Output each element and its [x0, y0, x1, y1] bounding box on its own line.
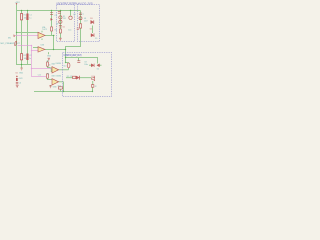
wire bottom bus [34, 91, 93, 93]
box A right circle component [69, 14, 76, 20]
net label line 2 [1, 41, 21, 46]
box C lower row: resistor + diode [67, 76, 80, 80]
wire op3 output [59, 68, 69, 70]
power flag +15V top left [15, 2, 21, 5]
feedback cap C3 [50, 13, 57, 17]
svg-text:U4 (LDO_3V3): U4 (LDO_3V3) [77, 1, 93, 5]
gnd below op4 [49, 86, 57, 89]
box A dashed frame [57, 5, 75, 42]
box B diode D3 [90, 18, 94, 24]
svg-text:C3: C3 [54, 15, 56, 17]
wire resistor column 1 [21, 11, 23, 65]
op-amp U6A [51, 62, 60, 73]
gnd below op2 [47, 56, 52, 61]
box A cap bars [59, 25, 62, 27]
wire box A second stub [70, 11, 72, 16]
svg-text:D3: D3 [90, 18, 92, 20]
wire box B chain vertical [80, 11, 82, 42]
pink branch to op2 minus [32, 50, 39, 52]
wire op2 output [45, 49, 66, 51]
box C clipping diodes [91, 64, 99, 71]
capacitor C1 top (solid bar) [27, 14, 29, 20]
svg-text:R2: R2 [24, 55, 26, 57]
svg-text:U5 (SPKR_AMP_OUT): U5 (SPKR_AMP_OUT) [63, 53, 81, 57]
wire op1 power stubs [41, 31, 43, 40]
svg-text:10u: 10u [68, 29, 71, 31]
wire op4 resistor lower lead [47, 73, 52, 79]
svg-text:1117: 1117 [84, 20, 88, 22]
wire box A chain vertical [60, 11, 62, 39]
op-amp U2A [38, 26, 47, 39]
wire op4 output row [59, 78, 92, 82]
svg-text:1u: 1u [29, 58, 31, 60]
feedback resistor R5 [51, 27, 57, 31]
svg-text:C12: C12 [38, 74, 41, 76]
svg-text:D5: D5 [90, 29, 92, 31]
wire op3 input stubs [50, 68, 52, 72]
svg-text:C9: C9 [95, 38, 97, 40]
wire box C top inner [66, 58, 98, 64]
box A series cap [58, 12, 61, 14]
svg-text:C7: C7 [81, 14, 83, 16]
wire gnd stub below op4 [50, 84, 52, 87]
op-amp U6B [51, 75, 60, 85]
svg-text:1u: 1u [29, 18, 31, 20]
svg-text:10k: 10k [24, 58, 27, 60]
wire ellipse branch [66, 62, 69, 65]
pink branch to op3 minus [32, 68, 52, 70]
svg-text:MIC_PREAMP_OUT: MIC_PREAMP_OUT [1, 42, 21, 45]
svg-text:+15V: +15V [15, 2, 21, 4]
wire box B down, left, into box C [66, 42, 81, 63]
op3 input resistor R7 [47, 61, 51, 66]
wire box C left vertical to bus [63, 82, 65, 92]
ground under resistor column [19, 65, 24, 75]
svg-text:5V1: 5V1 [63, 18, 66, 20]
wire speaker to bus [92, 88, 94, 92]
wire resistor column 2 [27, 11, 29, 65]
box B dashed frame [78, 5, 100, 42]
net label MIC line 1 [8, 35, 15, 40]
svg-text:100u: 100u [84, 64, 88, 66]
wire op1 out down to op2 out node [53, 36, 55, 50]
svg-text:J2: J2 [95, 86, 97, 88]
box A LED D1 [59, 16, 66, 20]
bus component near bottom [58, 85, 63, 89]
svg-text:C10: C10 [63, 65, 66, 67]
svg-text:+3V3: +3V3 [18, 78, 22, 80]
capacitor C2 bottom (solid bar) [27, 54, 29, 60]
wire op1 plus input [17, 32, 39, 34]
feedback diode mark [51, 18, 53, 20]
wire left vertical rail [16, 5, 18, 65]
box B left edge cap [77, 28, 79, 30]
svg-text:GND: GND [19, 72, 24, 74]
box B circle component [79, 17, 82, 20]
box B lower red symbol [91, 33, 97, 40]
svg-text:R5: R5 [55, 29, 57, 31]
box B resistor [79, 24, 81, 28]
pink net wire to op1 minus [15, 35, 38, 37]
bottom-left power chain [16, 73, 23, 88]
svg-text:LM386: LM386 [56, 63, 61, 65]
box C dashed frame [63, 53, 112, 97]
svg-text:C2: C2 [29, 55, 31, 57]
wire op2 plus input [33, 47, 38, 49]
svg-text:Q1: Q1 [73, 14, 75, 16]
box A resistor [59, 29, 61, 33]
svg-text:GND: GND [53, 87, 58, 89]
wire speaker link [92, 81, 94, 85]
box B series cap top [79, 13, 84, 16]
svg-text:U3 (OUTPUT_FILTER): U3 (OUTPUT_FILTER) [56, 1, 77, 5]
wire box B diode branch [92, 26, 94, 34]
svg-text:R1: R1 [24, 15, 26, 17]
wire gnd stub below op2 [48, 52, 50, 54]
wire box C cap stub [78, 58, 80, 61]
box A LED D2 [59, 20, 62, 23]
op4 input resistor R8 [47, 73, 50, 78]
svg-text:1k: 1k [49, 64, 51, 66]
resistor R2 bottom [21, 54, 23, 60]
op-amp U2B [38, 45, 45, 53]
resistor R1 top [21, 14, 23, 20]
wire main top horizontal [16, 10, 81, 12]
svg-text:D4: D4 [97, 69, 99, 71]
wire op3 input resistor leads [48, 61, 51, 68]
junction dots [16, 10, 93, 92]
svg-text:D6: D6 [16, 73, 18, 75]
wire bus comp stub [60, 89, 62, 91]
svg-text:TL072: TL072 [42, 29, 47, 31]
pink net wire main [18, 46, 47, 77]
svg-text:R9 1R: R9 1R [67, 76, 73, 78]
svg-text:10k: 10k [24, 18, 27, 20]
wire feedback column [51, 11, 53, 36]
svg-text:C6: C6 [19, 83, 21, 85]
box A ground [59, 38, 62, 40]
background [0, 0, 120, 99]
wire diode pair stubs [89, 64, 102, 66]
box C cap with text [77, 61, 88, 66]
box C ellipse component [67, 63, 70, 68]
svg-text:GND: GND [47, 56, 52, 58]
wire bottom-left horizontal [16, 64, 31, 66]
box C speaker symbol [91, 76, 96, 88]
wire op1 output [45, 35, 55, 37]
svg-text:LM386: LM386 [56, 75, 61, 77]
svg-text:1k: 1k [56, 24, 58, 26]
svg-text:C1: C1 [29, 15, 31, 17]
svg-text:C5: C5 [63, 26, 65, 28]
